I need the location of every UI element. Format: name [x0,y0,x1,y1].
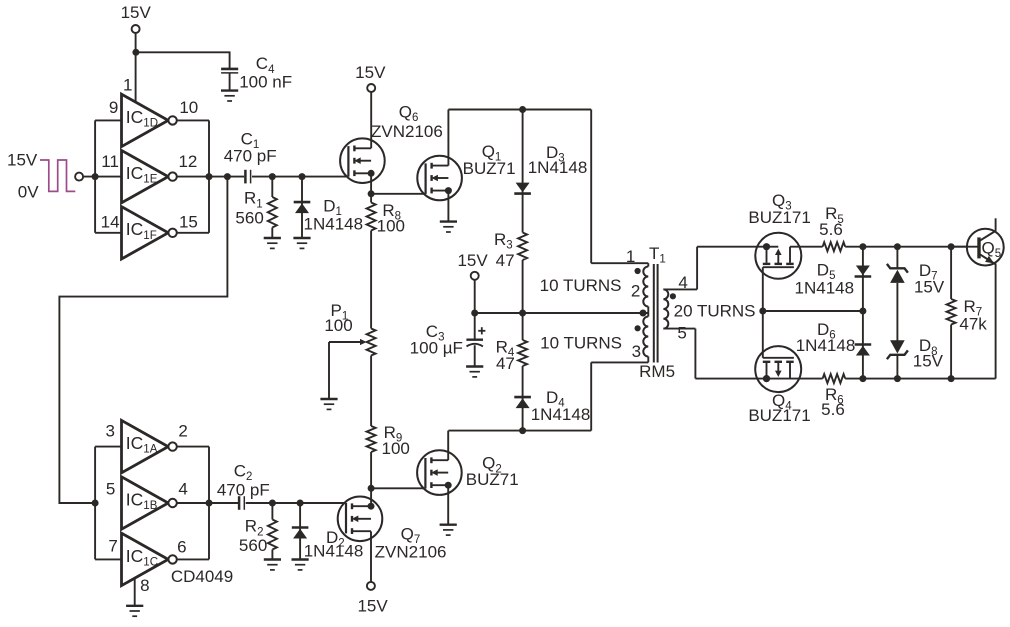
label D2 value [304,528,364,561]
junction dots bottom rail [763,375,955,382]
label C3 value [410,322,463,358]
junction dot D1 node [299,173,306,180]
power 15V supply top-left [121,3,152,103]
svg-text:15V: 15V [355,63,386,82]
svg-text:100: 100 [382,439,410,458]
diode D4 1N4148 [514,366,531,431]
wire T1 pin 3 to bottom rail [591,362,648,430]
polarity dot T1 pin1 [635,268,641,274]
ground R1 [264,238,281,248]
svg-text:CD4049: CD4049 [171,567,233,586]
label D8 value [913,336,944,370]
junction dot lower output bus [206,500,213,507]
pin 8 label [140,576,149,595]
polarity dot T1 pin3 [635,325,641,331]
label R4 value [496,337,515,373]
svg-text:BUZ171: BUZ171 [748,406,810,425]
junction dot R2 node [269,500,276,507]
svg-text:11: 11 [101,152,119,171]
transistor Q7 ZVN2106 [338,497,383,542]
diode D6 1N4148 [855,311,872,379]
ground C3 [466,367,483,377]
label D1 value [304,197,364,234]
label Q7 [375,524,447,561]
svg-text:15V: 15V [357,597,388,616]
wire Q1 drain to top rail [447,110,449,166]
diode D5 1N4148 [855,247,872,311]
junction dot R1 node [269,173,276,180]
transformer T1 secondary winding 20 turns [663,289,668,328]
wire output pin 4 [177,502,239,504]
ground Q1 [440,222,457,232]
power 15V supply mid [457,251,488,313]
label RM5 [639,362,675,381]
resistor R3 [518,233,527,314]
pin labels 5 4 [106,480,188,499]
label 20 TURNS [674,302,756,321]
svg-text:8: 8 [140,576,149,595]
label 10 TURNS upper [540,276,622,295]
junction dot bottom rail D4 [519,427,526,434]
svg-text:47: 47 [496,354,515,373]
label C2 value [217,461,270,499]
label D6 value [796,320,856,355]
wire supply to C4 [136,52,230,68]
wire bottom rail [448,430,591,432]
ground P1 [320,399,337,409]
junction dot supply node [132,49,139,56]
transistor Q2 BUZ71 [417,450,462,495]
svg-text:100: 100 [324,316,352,335]
svg-text:15V: 15V [913,352,944,371]
ground C4 [221,91,238,101]
svg-text:1: 1 [123,76,132,95]
label CD4049 [171,567,233,586]
wire output bus right pins 10-15 [177,120,209,232]
zener diode D8 15V [887,340,908,378]
transistor Q3 BUZ171 [755,233,801,279]
svg-text:1N4148: 1N4148 [796,336,856,355]
inverter IC1A [122,420,177,472]
capacitor C4 [221,69,238,91]
svg-text:ZVN2106: ZVN2106 [375,542,447,561]
potentiometer P1 [329,329,376,400]
svg-text:BUZ71: BUZ71 [466,470,519,489]
svg-text:9: 9 [109,98,118,117]
label C1 value [224,130,277,166]
transistor Q5 [951,218,1004,378]
label D3 value [528,143,588,177]
label Q1 [463,142,516,178]
svg-text:0V: 0V [18,183,39,202]
svg-text:470 pF: 470 pF [224,146,277,165]
junction dot R4 top node [519,310,526,317]
inverter IC1C [122,533,177,585]
svg-text:2: 2 [178,422,187,441]
wire feedback to lower inverters [59,177,227,503]
svg-text:47k: 47k [959,315,987,334]
label D7 value [914,261,945,297]
power 15V supply above Q6 [355,63,386,148]
svg-text:1N4148: 1N4148 [304,542,364,561]
svg-text:3: 3 [632,342,641,361]
transistor Q4 BUZ171 [755,346,801,392]
zener diode D7 15V [887,247,908,343]
junction dot top rail D3 [519,106,526,113]
input terminal [75,173,121,181]
ground D2 [292,560,309,570]
label 15V input level [7,151,38,170]
wire Q6 source to node [370,173,372,194]
svg-text:RM5: RM5 [639,362,675,381]
transistor Q6 ZVN2106 [340,138,385,183]
inverter IC1D [122,94,177,146]
svg-text:560: 560 [235,209,263,228]
wire node to Q2 gate [371,487,425,489]
svg-text:4: 4 [178,480,187,499]
svg-text:100: 100 [377,217,405,236]
label R8 value [377,201,405,236]
power 15V terminal below Q7 [357,582,388,616]
polarity dot T1 pin4 [670,293,676,299]
svg-text:15V: 15V [7,151,38,170]
junction dot gate link node [759,308,766,315]
pin labels 14 15 [101,213,198,232]
wire gate link to D5-D6 node [763,310,863,312]
junction dots top rail [859,243,954,250]
wire top rail [448,109,591,111]
inverter IC1E [122,150,177,202]
svg-text:15V: 15V [457,251,488,270]
pin labels 9 10 [109,98,198,117]
svg-text:1N4148: 1N4148 [528,158,588,177]
label R2 value [239,517,267,555]
label T1 [649,244,666,266]
capacitor C1 [245,170,250,184]
ground R2 [264,560,281,570]
ground Q2 [440,525,457,535]
svg-text:5.6: 5.6 [821,400,845,419]
wire center tap line [475,312,649,314]
wire Q3 drain to R5 [790,246,823,248]
label R9 value [382,423,410,458]
wire Q4 gate link [762,311,764,358]
resistor R6 [823,374,846,383]
pin labels 7 6 [108,537,186,557]
wire Q1 source to ground [447,191,449,222]
diode D1 1N4148 [294,177,311,238]
label T1 pin numbers [626,247,688,361]
svg-text:100 nF: 100 nF [239,73,292,92]
transformer T1 primary winding upper 10 turns [643,263,648,313]
junction dot T1 center tap [640,310,647,317]
svg-text:10 TURNS: 10 TURNS [540,276,622,295]
wire secondary top rail [845,246,967,248]
resistor R4 [518,313,527,366]
resistor R9 [367,356,376,489]
capacitor C3 100uF [466,313,485,367]
ground D1 [293,238,310,248]
inverter IC1B [122,477,177,529]
svg-text:10 TURNS: 10 TURNS [540,334,622,353]
junction dot output bus [206,173,213,180]
pin labels 11 12 [101,152,197,171]
label R3 value [494,230,515,270]
wire input bus left pins 9-11-14 [95,120,121,232]
junction dot middle node [859,308,866,315]
junction dot feedback node [224,173,231,180]
label C4 value [239,54,292,91]
wire output pin 12 [177,176,244,178]
label D5 value [795,260,855,297]
junction dot input bus [92,173,99,180]
svg-text:BUZ71: BUZ71 [463,159,516,178]
svg-text:20 TURNS: 20 TURNS [674,302,756,321]
svg-text:560: 560 [239,536,267,555]
wire pin 8 to ground [134,578,136,606]
label Q3 [748,191,810,227]
wire C2 to Q7 gate [246,502,346,504]
wire T1 pin 5 to Q4 [663,329,822,379]
label R7 value [959,297,987,334]
wire secondary bottom rail [845,378,995,380]
label P1 value [324,301,352,335]
svg-text:1N4148: 1N4148 [304,214,364,233]
wire C1 to Q6 gate [252,176,348,178]
diode D3 1N4148 [514,110,531,233]
inverter IC1F [122,207,177,259]
wire output bus right pins 2-6 [177,447,209,560]
svg-text:100 µF: 100 µF [410,339,463,358]
transformer T1 core [654,264,658,363]
svg-text:6: 6 [177,538,186,557]
wire Q3 gate link [762,267,764,311]
pin labels 3 2 [105,422,187,441]
label D4 value [531,388,591,424]
label Q5 [982,239,1002,261]
svg-text:5: 5 [106,480,115,499]
label Q4 [748,391,810,425]
label 0V input level [18,183,39,202]
svg-text:14: 14 [101,213,120,232]
wire node to Q7 drain [370,488,372,506]
svg-text:4: 4 [678,273,687,292]
resistor R5 [823,242,846,251]
svg-text:1: 1 [626,247,635,266]
svg-text:1N4148: 1N4148 [531,405,591,424]
junction dot Q6-R8 node [368,190,375,197]
label R5 value [819,204,844,239]
wire Q2 drain to bottom rail [447,431,449,461]
junction dot D2 node [297,500,304,507]
wire top rail to T1 pin 1 [591,110,648,264]
svg-text:15: 15 [179,213,198,232]
ground pin 8 [126,606,143,616]
junction dot R9-Q7 node [368,485,375,492]
label R1 value [235,189,263,228]
pin 1 label [123,76,132,95]
label Q6 [371,102,443,141]
svg-text:2: 2 [631,281,640,300]
wire T1 pin 4 to Q3 [663,247,766,290]
svg-text:47: 47 [496,251,515,270]
transistor Q1 BUZ71 [417,156,462,201]
svg-text:15V: 15V [914,278,945,297]
svg-text:5: 5 [677,323,686,342]
svg-text:3: 3 [105,422,114,441]
transformer T1 primary winding lower 10 turns [643,313,648,362]
input square wave symbol [40,160,75,191]
label R6 value [821,385,845,419]
wire Q2 source to ground [447,485,449,525]
resistor R2 [268,503,277,560]
svg-text:5.6: 5.6 [819,220,843,239]
capacitor C2 [239,496,244,510]
svg-text:15V: 15V [121,3,152,22]
wire node to Q1 gate [371,193,426,195]
wire Q7 source to 15V [370,531,372,582]
svg-text:470 pF: 470 pF [217,481,270,500]
svg-text:7: 7 [108,537,117,556]
svg-text:BUZ171: BUZ171 [748,208,810,227]
junction dot 15V mid node [471,310,478,317]
junction dot lower input bus [92,500,99,507]
label 10 TURNS lower [540,334,622,353]
resistor R8 [367,194,376,329]
svg-text:12: 12 [178,152,197,171]
svg-text:1N4148: 1N4148 [795,279,855,298]
svg-text:ZVN2106: ZVN2106 [371,122,443,141]
wire input bus left pins 3-5-7 [95,447,121,560]
svg-text:10: 10 [179,98,198,117]
resistor R1 [268,177,277,238]
label Q2 [466,454,519,489]
resistor R7 [947,247,956,379]
diode D2 1N4148 [292,503,309,560]
